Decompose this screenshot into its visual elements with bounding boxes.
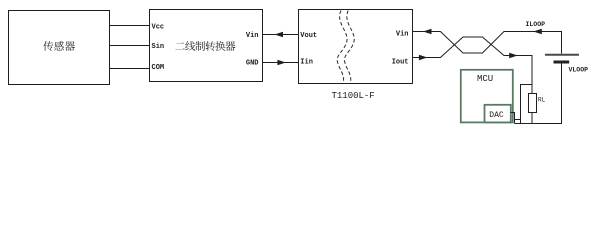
- svg-text:ILOOP: ILOOP: [526, 21, 546, 28]
- svg-text:Vin: Vin: [396, 31, 409, 39]
- svg-text:Vcc: Vcc: [152, 23, 165, 31]
- svg-text:Vin: Vin: [246, 32, 259, 40]
- svg-text:VLOOP: VLOOP: [569, 67, 589, 74]
- svg-text:Vout: Vout: [300, 32, 317, 40]
- svg-text:T1100L-F: T1100L-F: [332, 91, 375, 101]
- svg-text:COM: COM: [152, 64, 165, 72]
- svg-text:DAC: DAC: [489, 111, 504, 120]
- svg-text:Iin: Iin: [300, 59, 313, 67]
- svg-text:Iout: Iout: [392, 59, 409, 67]
- svg-text:GND: GND: [246, 60, 259, 68]
- svg-text:Sin: Sin: [152, 43, 165, 51]
- svg-text:MCU: MCU: [477, 74, 493, 84]
- svg-text:RL: RL: [538, 97, 546, 104]
